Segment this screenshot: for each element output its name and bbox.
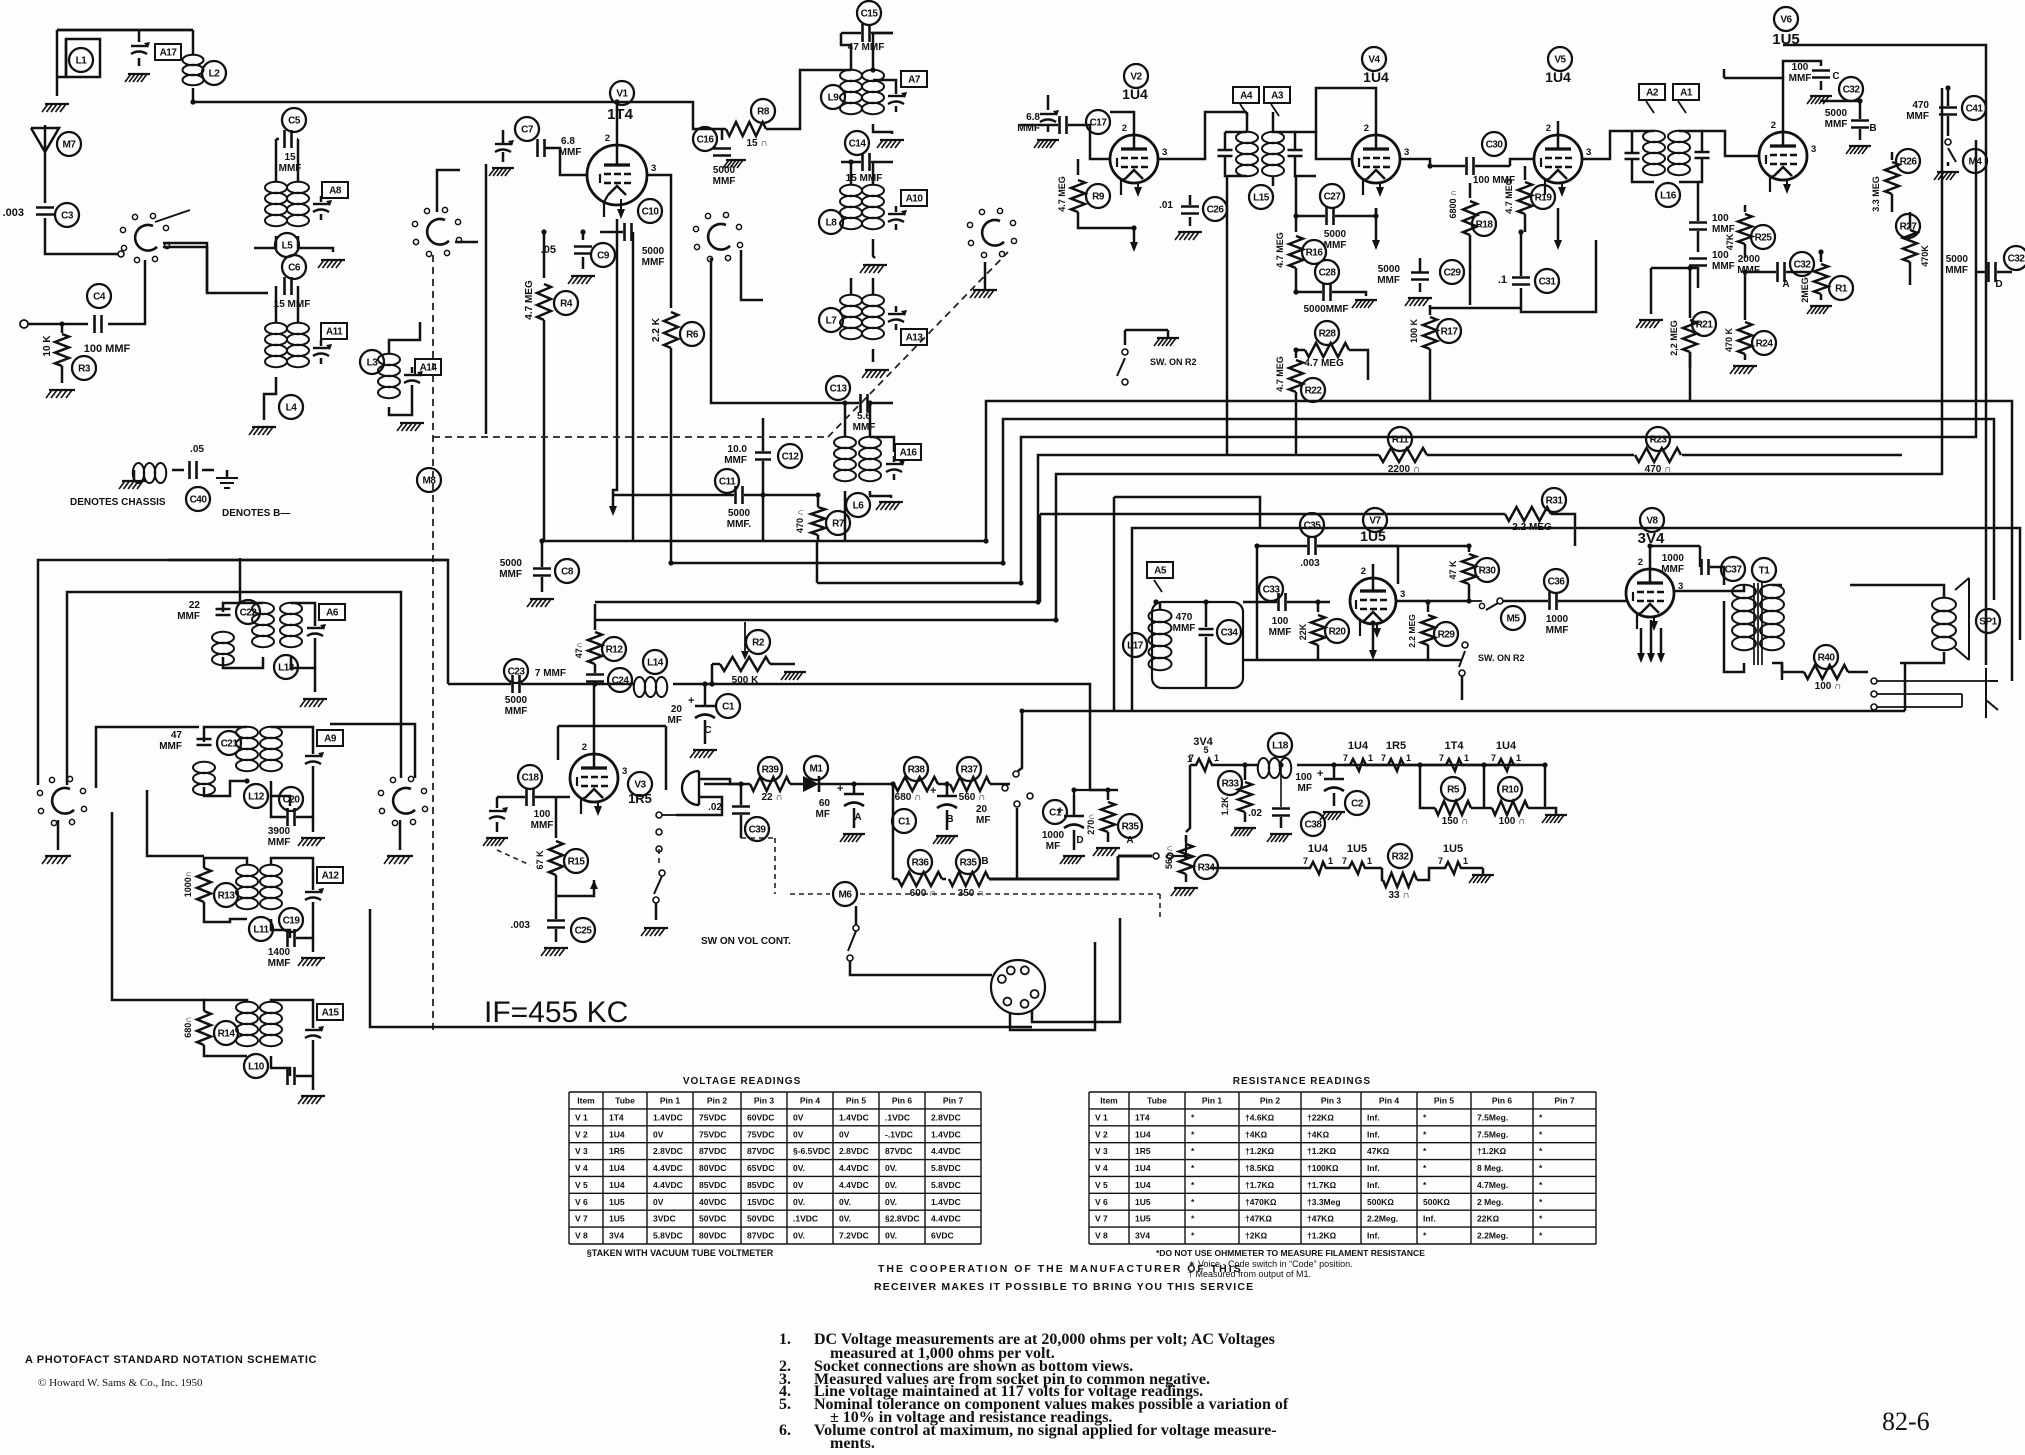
rectifier M1: [800, 756, 893, 792]
cooperation text: [874, 1263, 1254, 1293]
svg-text:Pin 7: Pin 7: [943, 1095, 964, 1105]
wire v2 plate: [1158, 112, 1247, 159]
wire: [45, 218, 118, 254]
svg-text:Inf.: Inf.: [1367, 1129, 1380, 1139]
svg-text:87VDC: 87VDC: [699, 1146, 726, 1156]
svg-text:C4: C4: [93, 292, 106, 303]
svg-text:0V.: 0V.: [885, 1197, 897, 1207]
svg-text:100 ∩: 100 ∩: [1815, 681, 1842, 692]
svg-text:1000: 1000: [1662, 553, 1685, 564]
svg-text:1U4: 1U4: [1496, 740, 1517, 752]
svg-text:C36: C36: [1548, 577, 1566, 588]
left switch feed B: [67, 592, 401, 785]
svg-text:V 3: V 3: [1095, 1146, 1108, 1156]
ground: [384, 820, 413, 864]
svg-text:7: 7: [1342, 856, 1347, 866]
svg-text:C20: C20: [283, 795, 301, 806]
svg-text:C29: C29: [1444, 268, 1462, 279]
svg-text:85VDC: 85VDC: [747, 1180, 774, 1190]
svg-text:*: *: [1539, 1214, 1543, 1224]
svg-text:60: 60: [819, 798, 831, 809]
svg-text:85VDC: 85VDC: [699, 1180, 726, 1190]
node: [60, 322, 65, 327]
svg-text:50VDC: 50VDC: [747, 1214, 774, 1224]
wire: [44, 160, 47, 203]
resistor R10: [1484, 765, 1545, 827]
node: [593, 682, 598, 687]
svg-text:A6: A6: [326, 608, 339, 619]
AC plug: [676, 771, 744, 815]
resistor R35B: [949, 850, 1017, 899]
svg-text:67 K: 67 K: [535, 850, 545, 870]
svg-text:2.2 K: 2.2 K: [651, 317, 662, 342]
wire v6 top: [1724, 78, 1783, 118]
svg-text:C37: C37: [1725, 565, 1743, 576]
tube V4 1U4: [1352, 47, 1409, 197]
svg-text:Inf.: Inf.: [1423, 1214, 1436, 1224]
svg-text:100 K: 100 K: [1409, 318, 1419, 343]
filament 1R5: [1372, 740, 1411, 771]
svg-text:1: 1: [1463, 856, 1468, 866]
svg-text:MMF: MMF: [268, 837, 291, 848]
svg-text:†2KΩ: †2KΩ: [1245, 1231, 1268, 1241]
wire top right: [1783, 45, 1986, 665]
legend text: [70, 497, 290, 519]
svg-text:*: *: [1423, 1180, 1427, 1190]
capacitor C8: [499, 540, 579, 607]
svg-text:Pin 2: Pin 2: [707, 1095, 728, 1105]
svg-text:MF: MF: [1046, 841, 1060, 852]
svg-text:1U5: 1U5: [1347, 843, 1367, 855]
svg-text:© Howard W. Sams & Co., Inc. 1: © Howard W. Sams & Co., Inc. 1950: [38, 1377, 203, 1389]
svg-text:1: 1: [1406, 753, 1411, 763]
svg-text:60VDC: 60VDC: [747, 1112, 774, 1122]
svg-text:4.7 MEG: 4.7 MEG: [524, 280, 535, 320]
svg-text:Pin 5: Pin 5: [846, 1095, 867, 1105]
svg-text:1T4: 1T4: [607, 106, 634, 123]
svg-text:2,2 MEG: 2,2 MEG: [1669, 320, 1679, 356]
svg-text:1.: 1.: [779, 1331, 791, 1348]
svg-text:5000: 5000: [1946, 254, 1969, 265]
svg-text:0V: 0V: [793, 1180, 804, 1190]
wire L13 tap: [239, 558, 242, 603]
svg-text:.01: .01: [1159, 200, 1173, 211]
resistor R12: [574, 604, 626, 673]
svg-text:2: 2: [1364, 123, 1369, 134]
svg-text:MMF: MMF: [531, 820, 554, 831]
svg-text:7 MMF: 7 MMF: [535, 668, 566, 679]
svg-text:A7: A7: [908, 75, 921, 86]
svg-text:MMF: MMF: [1712, 224, 1735, 235]
photofact footer: [25, 1354, 317, 1389]
svg-text:†4KΩ: †4KΩ: [1307, 1129, 1330, 1139]
svg-text:.003: .003: [3, 207, 24, 219]
svg-text:1000∩: 1000∩: [183, 871, 193, 898]
resistor R34: [1164, 835, 1218, 896]
svg-text:V 6: V 6: [1095, 1197, 1108, 1207]
resistor R8: [700, 70, 851, 149]
svg-text:2.2 MEG: 2.2 MEG: [1407, 614, 1417, 648]
svg-text:Item: Item: [1100, 1095, 1118, 1105]
svg-text:C8: C8: [561, 567, 574, 578]
svg-text:1U4: 1U4: [609, 1180, 625, 1190]
svg-text:C27: C27: [1324, 192, 1342, 203]
wire: [1510, 159, 1534, 166]
resistor R30: [1448, 546, 1499, 602]
svg-text:22: 22: [189, 600, 201, 611]
svg-text:R39: R39: [762, 765, 780, 776]
svg-text:R22: R22: [1305, 386, 1323, 397]
wire: [163, 247, 207, 293]
svg-text:470: 470: [1176, 612, 1193, 623]
capacitor C15: [841, 1, 893, 53]
svg-text:R27: R27: [1900, 222, 1918, 233]
IF transformer L16: [1625, 84, 1710, 207]
svg-text:22K: 22K: [1298, 623, 1308, 640]
svg-text:MF: MF: [1298, 783, 1312, 794]
svg-text:L4: L4: [286, 403, 298, 414]
svg-text:B: B: [1869, 123, 1876, 134]
svg-text:1U4: 1U4: [1308, 843, 1329, 855]
svg-text:A: A: [1126, 835, 1133, 846]
svg-text:100 ∩: 100 ∩: [1499, 816, 1526, 827]
svg-text:Inf.: Inf.: [1367, 1163, 1380, 1173]
svg-text:5000: 5000: [1378, 264, 1401, 275]
svg-text:R16: R16: [1306, 248, 1324, 259]
svg-text:500KΩ: 500KΩ: [1367, 1197, 1394, 1207]
vol switch: [701, 906, 890, 975]
svg-text:*: *: [1423, 1163, 1427, 1173]
svg-text:150 ∩: 150 ∩: [1442, 816, 1469, 827]
svg-text:1000: 1000: [1042, 830, 1065, 841]
resistor R18: [1448, 183, 1496, 305]
svg-text:SW. ON R2: SW. ON R2: [1150, 357, 1197, 367]
svg-text:87VDC: 87VDC: [885, 1146, 912, 1156]
svg-text:1U5: 1U5: [609, 1197, 625, 1207]
svg-text:470: 470: [1912, 100, 1929, 111]
svg-text:MMF: MMF: [268, 958, 291, 969]
svg-text:15VDC: 15VDC: [747, 1197, 774, 1207]
svg-text:4.4VDC: 4.4VDC: [839, 1180, 869, 1190]
svg-text:0V: 0V: [653, 1129, 664, 1139]
svg-text:R18: R18: [1476, 220, 1494, 231]
svg-text:.1VDC: .1VDC: [793, 1214, 818, 1224]
resistor R32: [1382, 844, 1439, 901]
capacitor C19b: [288, 1046, 326, 1104]
voltage readings table: [569, 1076, 981, 1244]
svg-text:L15: L15: [1253, 193, 1270, 204]
svg-text:7.5Meg.: 7.5Meg.: [1477, 1112, 1508, 1122]
tube V5 1U4: [1534, 47, 1591, 197]
svg-text:V4: V4: [1368, 55, 1380, 66]
svg-text:3: 3: [1811, 144, 1816, 155]
svg-text:Pin 4: Pin 4: [1379, 1095, 1400, 1105]
svg-text:*: *: [1539, 1197, 1543, 1207]
svg-text:1U5: 1U5: [1443, 843, 1463, 855]
resistor R29: [1407, 602, 1458, 660]
wire: [892, 784, 895, 879]
svg-text:3: 3: [1162, 147, 1167, 158]
svg-text:C2: C2: [1351, 799, 1364, 810]
svg-text:10.0: 10.0: [728, 444, 748, 455]
svg-text:†3.3Meg: †3.3Meg: [1307, 1197, 1341, 1207]
capacitor C32D: [1945, 246, 2025, 290]
svg-text:.02: .02: [708, 802, 722, 813]
svg-text:5.8VDC: 5.8VDC: [653, 1231, 683, 1241]
svg-text:MMF: MMF: [499, 569, 522, 580]
resistor R35A: [1086, 790, 1142, 856]
svg-text:.003: .003: [1300, 558, 1320, 569]
svg-text:15 ∩: 15 ∩: [746, 138, 767, 149]
svg-text:T1: T1: [1759, 566, 1771, 577]
svg-text:MMF: MMF: [177, 611, 200, 622]
svg-text:2000: 2000: [1738, 254, 1761, 265]
svg-text:M7: M7: [63, 140, 77, 151]
resistor R11: [1379, 427, 1427, 475]
svg-text:2: 2: [1122, 123, 1127, 134]
capacitor C10: [600, 199, 665, 541]
wire grid v4: [1295, 132, 1352, 159]
wire v6 grid: [1702, 131, 1759, 156]
capacitor C32B: [1820, 101, 1877, 154]
wire R31 feed: [1040, 514, 1088, 602]
wire L12 feed: [96, 727, 199, 788]
resistor R38: [894, 757, 946, 803]
svg-text:6VDC: 6VDC: [931, 1231, 954, 1241]
resistor R28: [1296, 321, 1368, 380]
svg-text:1.4VDC: 1.4VDC: [653, 1112, 683, 1122]
legend cap value: [186, 444, 210, 511]
svg-text:1.4VDC: 1.4VDC: [931, 1197, 961, 1207]
svg-text:L10: L10: [248, 1062, 265, 1073]
wire: [254, 236, 276, 248]
svg-text:V 4: V 4: [575, 1163, 588, 1173]
svg-text:Pin 3: Pin 3: [1321, 1095, 1342, 1105]
svg-text:87VDC: 87VDC: [747, 1231, 774, 1241]
rotary switch M2b: [412, 170, 478, 257]
resistor R31: [1088, 488, 1575, 546]
svg-text:+: +: [1057, 805, 1063, 817]
svg-text:5: 5: [1203, 745, 1208, 755]
svg-text:.003: .003: [511, 920, 531, 931]
wire: [1090, 150, 1110, 159]
svg-text:1U5: 1U5: [1135, 1214, 1151, 1224]
capacitor C7b: [538, 136, 582, 158]
svg-text:R21: R21: [1696, 320, 1714, 331]
svg-text:MMF: MMF: [559, 147, 582, 158]
svg-text:MMF: MMF: [853, 422, 876, 433]
ground: [42, 104, 69, 112]
svg-text:V 2: V 2: [1095, 1129, 1108, 1139]
bus net D: [595, 455, 1902, 602]
svg-text:1: 1: [1214, 753, 1219, 763]
svg-text:IF=455 KC: IF=455 KC: [484, 996, 628, 1029]
resistor R33: [1218, 765, 1256, 836]
wire: [1256, 546, 1259, 660]
wire: [389, 322, 420, 354]
resistor R39: [704, 757, 800, 803]
svg-text:22KΩ: 22KΩ: [1477, 1214, 1500, 1224]
svg-text:100: 100: [1792, 62, 1809, 73]
svg-text:*: *: [1423, 1112, 1427, 1122]
svg-text:47∩: 47∩: [574, 642, 584, 659]
svg-text:V 4: V 4: [1095, 1163, 1108, 1173]
svg-text:V 7: V 7: [575, 1214, 588, 1224]
svg-text:1: 1: [1516, 753, 1521, 763]
capacitor C18: [497, 765, 570, 831]
bus net B: [671, 419, 1994, 600]
svg-text:2: 2: [1546, 123, 1551, 134]
svg-text:C16: C16: [697, 135, 715, 146]
long bottom wires: [370, 906, 1032, 1027]
svg-text:V8: V8: [1646, 516, 1658, 527]
svg-text:A2: A2: [1646, 88, 1659, 99]
svg-text:R2: R2: [752, 638, 765, 649]
wire V1 filament: [609, 219, 617, 516]
svg-text:C17: C17: [1090, 118, 1108, 129]
wire L10 feed: [112, 812, 204, 1000]
resistance readings table: [1089, 1076, 1596, 1244]
svg-text:R24: R24: [1756, 339, 1774, 350]
svg-text:A4: A4: [1240, 91, 1253, 102]
loop antenna L1: [57, 30, 193, 77]
svg-text:3V4: 3V4: [609, 1231, 624, 1241]
svg-text:†1.2KΩ: †1.2KΩ: [1307, 1231, 1337, 1241]
svg-text:†47KΩ: †47KΩ: [1245, 1214, 1272, 1224]
capacitor C28: [1296, 260, 1377, 315]
svg-text:C23: C23: [508, 667, 526, 678]
svg-text:47KΩ: 47KΩ: [1367, 1146, 1390, 1156]
svg-text:100: 100: [1295, 772, 1312, 783]
svg-text:*: *: [1191, 1197, 1195, 1207]
svg-text:6800 ∩: 6800 ∩: [1448, 189, 1458, 218]
svg-text:C39: C39: [749, 825, 767, 836]
tube V7 1U5: [1350, 508, 1405, 638]
svg-text:7: 7: [1343, 753, 1348, 763]
resistor R17: [1409, 305, 1521, 401]
svg-text:Tube: Tube: [1147, 1095, 1167, 1105]
svg-text:MMF: MMF: [724, 455, 747, 466]
svg-text:Inf.: Inf.: [1367, 1180, 1380, 1190]
svg-text:5.8VDC: 5.8VDC: [931, 1180, 961, 1190]
svg-text:R5: R5: [1447, 785, 1460, 796]
svg-text:100: 100: [1712, 250, 1729, 261]
transformer T1: [1674, 558, 1905, 711]
svg-text:*: *: [1539, 1163, 1543, 1173]
IF transformer L15: [1218, 87, 1317, 209]
svg-text:4.4VDC: 4.4VDC: [839, 1163, 869, 1173]
resistor R36: [893, 850, 946, 899]
svg-text:MMF: MMF: [1173, 623, 1196, 634]
svg-text:*DO NOT USE OHMMETER TO M: *DO NOT USE OHMMETER TO MEASURE FILAMENT…: [1156, 1248, 1425, 1258]
svg-text:0V.: 0V.: [793, 1231, 805, 1241]
svg-text:L8: L8: [826, 218, 838, 229]
ground: [125, 74, 150, 82]
svg-text:*: *: [1191, 1231, 1195, 1241]
svg-text:V 5: V 5: [575, 1180, 588, 1190]
svg-text:V1: V1: [616, 89, 628, 100]
svg-text:A15: A15: [322, 1008, 340, 1019]
svg-text:47 K: 47 K: [1448, 560, 1458, 580]
svg-text:75VDC: 75VDC: [747, 1129, 774, 1139]
svg-text:1R5: 1R5: [628, 791, 652, 806]
svg-text:R8: R8: [757, 107, 770, 118]
svg-text:80VDC: 80VDC: [699, 1231, 726, 1241]
capacitor C1C: [668, 684, 740, 758]
svg-text:500KΩ: 500KΩ: [1423, 1197, 1450, 1207]
svg-text:7.2VDC: 7.2VDC: [839, 1231, 869, 1241]
svg-text:Item: Item: [577, 1095, 595, 1105]
svg-text:7: 7: [1381, 753, 1386, 763]
svg-text:0V: 0V: [839, 1129, 850, 1139]
svg-text:Pin 4: Pin 4: [800, 1095, 821, 1105]
svg-text:C41: C41: [1966, 104, 1984, 115]
wire AVC line: [613, 494, 818, 497]
svg-text:4.7Meg.: 4.7Meg.: [1477, 1180, 1508, 1190]
svg-text:Tube: Tube: [615, 1095, 635, 1105]
resistor R7: [795, 495, 850, 540]
svg-text:C32: C32: [2008, 254, 2025, 265]
resistor R5: [1420, 765, 1484, 827]
svg-text:C11: C11: [719, 477, 736, 488]
capacitor C1D: [1042, 795, 1085, 864]
audio box: [1022, 528, 2020, 711]
page number: [1882, 1407, 1930, 1436]
svg-text:R35: R35: [1122, 822, 1140, 833]
svg-text:†100KΩ: †100KΩ: [1307, 1163, 1339, 1173]
svg-text:1R5: 1R5: [1135, 1146, 1151, 1156]
IF transformer L8: [819, 162, 927, 273]
svg-text:1: 1: [1328, 856, 1333, 866]
svg-text:3.3 MEG: 3.3 MEG: [1871, 176, 1881, 212]
svg-text:A11: A11: [326, 327, 343, 338]
svg-text:.1VDC: .1VDC: [885, 1112, 910, 1122]
arrow V7 fil: [1369, 625, 1377, 660]
IF transformer L5: [265, 139, 348, 268]
svg-text:5.: 5.: [779, 1396, 791, 1413]
svg-text:†1.2KΩ: †1.2KΩ: [1245, 1146, 1275, 1156]
svg-text:3: 3: [651, 163, 656, 174]
switch contacts: [1002, 711, 1022, 791]
resistor R16: [1275, 176, 1326, 292]
wire B line: [1014, 790, 1186, 879]
svg-text:4.7 MEG: 4.7 MEG: [1504, 178, 1514, 214]
wire: [816, 540, 819, 583]
svg-text:3: 3: [1404, 147, 1409, 158]
trimmer capacitor C7: [489, 117, 539, 176]
svg-text:1U4: 1U4: [1135, 1129, 1151, 1139]
svg-text:R30: R30: [1479, 566, 1497, 577]
svg-text:B: B: [981, 856, 988, 867]
svg-text:R26: R26: [1900, 157, 1918, 168]
svg-text:C6: C6: [288, 263, 301, 274]
svg-text:V 3: V 3: [575, 1146, 588, 1156]
capacitor C35: [1257, 513, 1469, 569]
svg-text:R25: R25: [1755, 233, 1773, 244]
svg-text:*: *: [1539, 1146, 1543, 1156]
svg-text:2: 2: [605, 133, 610, 144]
svg-text:-.1VDC: -.1VDC: [885, 1129, 913, 1139]
potentiometer R2: [712, 622, 806, 686]
osc transformer L13: [177, 600, 345, 707]
phone jack: [1871, 668, 1998, 718]
svg-text:4.4VDC: 4.4VDC: [653, 1180, 683, 1190]
capacitor C1A: [816, 783, 865, 842]
svg-text:MF: MF: [668, 715, 682, 726]
svg-text:2: 2: [1361, 566, 1366, 577]
svg-text:5000: 5000: [1825, 108, 1848, 119]
capacitor C36: [1503, 569, 1600, 636]
